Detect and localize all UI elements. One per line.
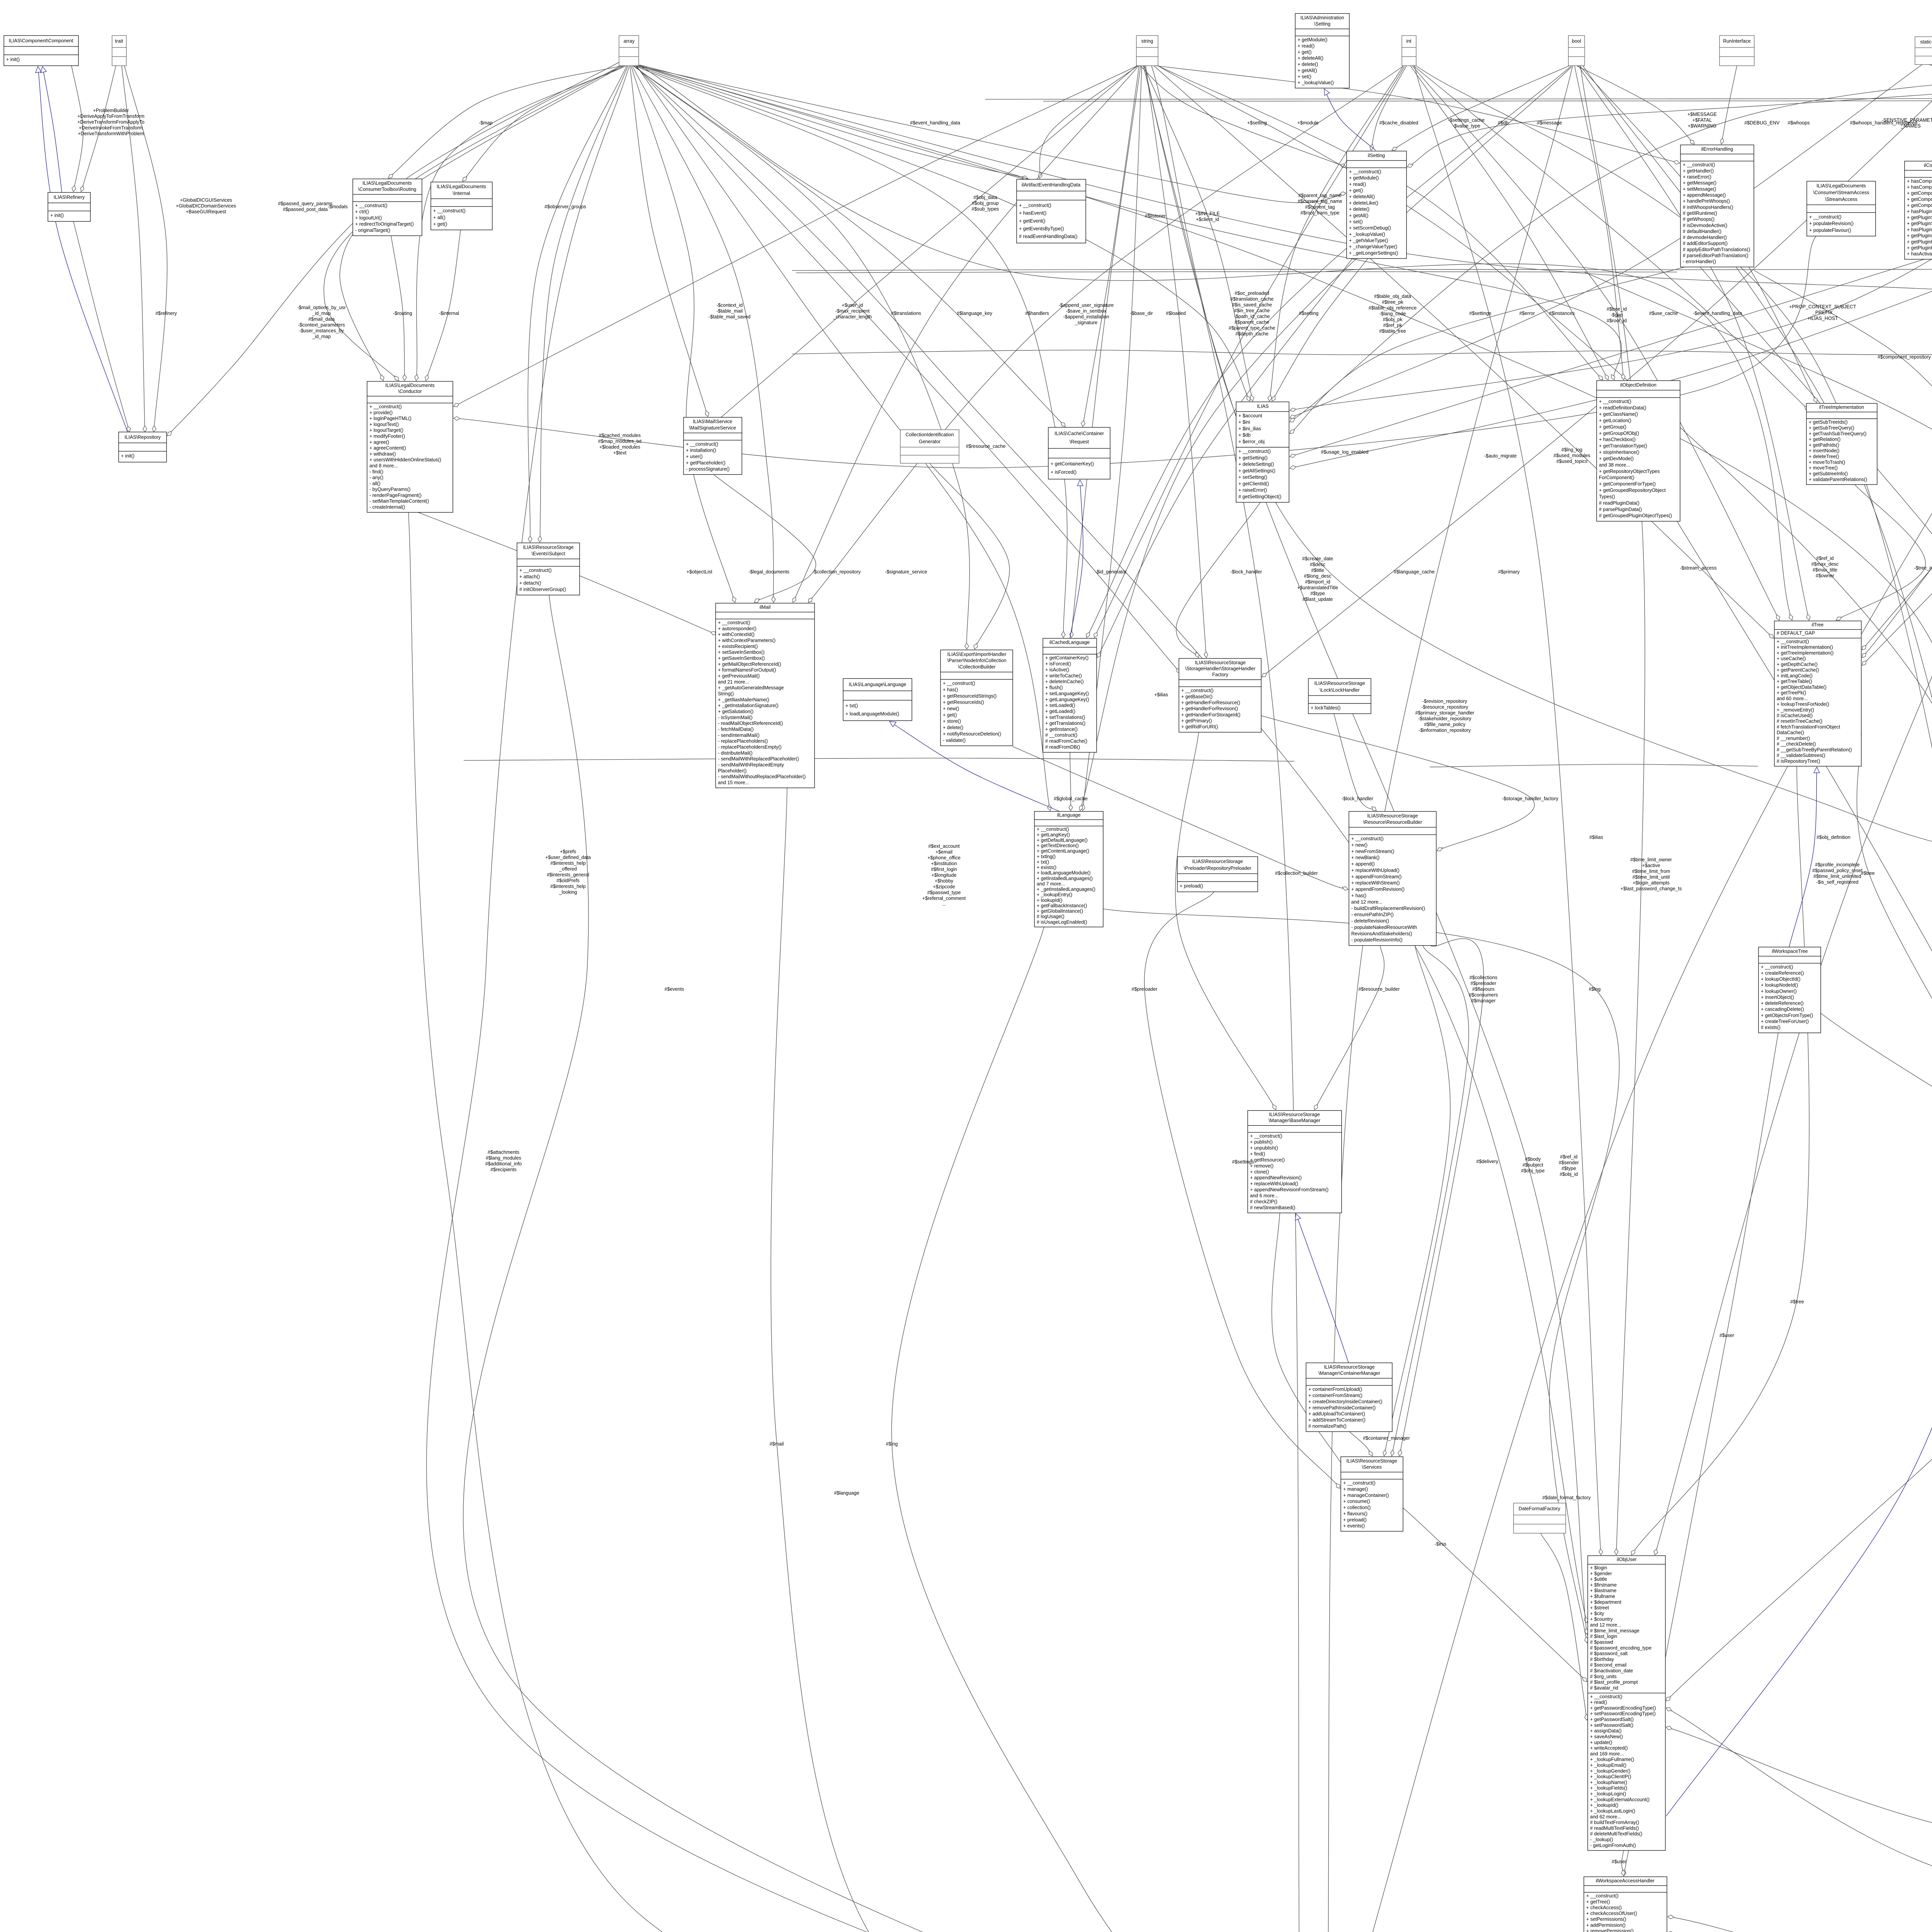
svg-text:#$additional_info: #$additional_info — [485, 1161, 522, 1167]
svg-text:- find(): - find() — [369, 469, 383, 474]
class ILIAS — [1236, 402, 1289, 502]
svg-text:# $inactivation_date: # $inactivation_date — [1590, 1668, 1633, 1673]
svg-text:+$login_attempts: +$login_attempts — [1633, 880, 1670, 886]
wire array to ilMailNotification — [427, 66, 1274, 1932]
svg-text:+ getTree(): + getTree() — [1586, 1899, 1610, 1905]
svg-text:+ _lookupEmail(): + _lookupEmail() — [1590, 1763, 1626, 1768]
wire string to MailSignatureService — [716, 66, 1137, 422]
svg-text:#$usage_log_enabled: #$usage_log_enabled — [1321, 449, 1368, 455]
svg-text:#$collection_builder: #$collection_builder — [1275, 871, 1318, 876]
svg-text:-$stream_access: -$stream_access — [1680, 565, 1716, 571]
svg-text:+ _lookupId(): + _lookupId() — [1590, 1803, 1618, 1808]
svg-text:#$preloader: #$preloader — [1132, 986, 1158, 992]
svg-text:#$sub_types: #$sub_types — [972, 206, 999, 212]
svg-text:+ isActive(): + isActive() — [1045, 667, 1069, 672]
svg-text:\Preloader\RepositoryPreloader: \Preloader\RepositoryPreloader — [1184, 866, 1251, 871]
wire bus1c — [1681, 269, 1932, 270]
label -$routing — [393, 311, 412, 316]
svg-text:+$client_id: +$client_id — [1196, 217, 1219, 222]
svg-text:#$listener: #$listener — [1145, 213, 1166, 219]
label -$collection_repository — [812, 569, 861, 575]
wire array to Subject — [538, 66, 628, 542]
svg-text:+ __construct(): + __construct() — [369, 404, 402, 410]
svg-text:#$parent_cache: #$parent_cache — [1235, 320, 1269, 325]
svg-text:-$path_id_cache: -$path_id_cache — [1234, 314, 1270, 319]
wire bus4 — [464, 758, 1294, 761]
svg-text:+ cascadingDelete(): + cascadingDelete() — [1761, 1007, 1804, 1012]
wire string to ILIAS — [1144, 66, 1254, 401]
wire trait to Repository 2 — [124, 66, 167, 432]
class StreamAccess — [1807, 181, 1876, 236]
svg-text:+ lookupTreesForNode(): + lookupTreesForNode() — [1777, 702, 1829, 707]
wire ContainerManager to Services — [1349, 1432, 1372, 1456]
svg-text:+$text: +$text — [613, 450, 627, 456]
class ilCachedLanguage — [1043, 638, 1097, 752]
svg-text:#$time_limit_from: #$time_limit_from — [1632, 869, 1670, 874]
svg-text:\CollectionBuilder: \CollectionBuilder — [958, 664, 995, 670]
svg-text:-$lock_handler: -$lock_handler — [1230, 569, 1262, 575]
svg-text:\Lock\LockHandler: \Lock\LockHandler — [1320, 687, 1360, 693]
svg-text:# $second_email: # $second_email — [1590, 1662, 1627, 1668]
svg-text:#$db: #$db — [1498, 120, 1509, 126]
svg-text:# readMultiTextFields(): # readMultiTextFields() — [1590, 1825, 1639, 1831]
svg-text:# DEFAULT_GAP: # DEFAULT_GAP — [1777, 630, 1815, 636]
svg-text:+ installation(): + installation() — [686, 448, 716, 453]
svg-text:+DeriveTransformFromApplyTo: +DeriveTransformFromApplyTo — [77, 119, 145, 125]
svg-text:+ attach(): + attach() — [519, 574, 540, 580]
svg-text:+ getGroupOfObj(): + getGroupOfObj() — [1599, 430, 1639, 436]
svg-text:#$ilias: #$ilias — [1589, 835, 1603, 840]
svg-text:+ agreeContent(): + agreeContent() — [369, 446, 406, 451]
svg-text:#$primary: #$primary — [1498, 569, 1520, 575]
svg-text:#$delivery: #$delivery — [1476, 1159, 1499, 1164]
wire Services to ilObjUser — [1403, 1508, 1587, 1682]
wire ilCachedLanguage to ilLanguage — [1069, 752, 1073, 811]
svg-text:#$language: #$language — [834, 1490, 859, 1496]
svg-text:\Services: \Services — [1362, 1464, 1381, 1470]
svg-text:+ insertNode(): + insertNode() — [1809, 448, 1840, 454]
svg-text:#$ref_id: #$ref_id — [1816, 556, 1833, 561]
label -$append_user_signature — [1059, 303, 1114, 325]
svg-text:+ __construct(): + __construct() — [1590, 1694, 1622, 1699]
label #$collections — [1469, 975, 1498, 1003]
svg-text:ILIAS\ResourceStorage: ILIAS\ResourceStorage — [1314, 680, 1365, 686]
svg-text:+ __construct(): + __construct() — [1238, 449, 1271, 454]
label #$ref_id — [1559, 1154, 1579, 1177]
svg-text:- all(): - all() — [369, 481, 380, 486]
svg-text:+ getTreeTable(): + getTreeTable() — [1777, 679, 1812, 684]
svg-text:#$passwd_policy_reset: #$passwd_policy_reset — [1812, 868, 1862, 873]
svg-text:+ _lookupFullname(): + _lookupFullname() — [1590, 1757, 1634, 1762]
svg-text:_id_map: _id_map — [312, 334, 331, 339]
svg-text:-$context_parameters: -$context_parameters — [298, 322, 345, 328]
svg-text:#$last_update: #$last_update — [1303, 597, 1333, 602]
svg-text:ILIAS\LegalDocuments: ILIAS\LegalDocuments — [362, 180, 412, 186]
wire ilRbacReview to ilWorkspaceAccessHandler — [1668, 546, 1932, 1932]
svg-text:and 62 more...: and 62 more... — [1590, 1814, 1621, 1820]
svg-text:+$prefs: +$prefs — [560, 849, 576, 854]
svg-text:ILIAS\Refinery: ILIAS\Refinery — [54, 195, 85, 200]
svg-text:+ handlePreWhoops(): + handlePreWhoops() — [1683, 199, 1730, 204]
wire MailSignatureService to ilMail — [714, 474, 816, 602]
svg-text:#$date_format_factory: #$date_format_factory — [1542, 1495, 1591, 1500]
svg-text:+ getSubtreeInfo(): + getSubtreeInfo() — [1809, 471, 1848, 476]
svg-text:+ getTreePk(): + getTreePk() — [1777, 690, 1806, 696]
svg-text:Factory: Factory — [1212, 672, 1228, 677]
svg-text:+ appendNewRevision(): + appendNewRevision() — [1250, 1175, 1302, 1180]
wire ilComponentRepository to ILIAS — [1290, 259, 1924, 457]
svg-text:+ __construct(): + __construct() — [355, 203, 388, 208]
label #$db — [1498, 120, 1509, 126]
svg-text:# $birthday: # $birthday — [1590, 1656, 1614, 1662]
svg-text:#$in_tree_cache: #$in_tree_cache — [1234, 308, 1270, 313]
svg-text:#$mail_data: #$mail_data — [308, 316, 335, 322]
svg-text:+ getParentCache(): + getParentCache() — [1777, 667, 1819, 673]
svg-text:+ lookupObjectId(): + lookupObjectId() — [1761, 976, 1800, 982]
wire ilObjUser to ilObject generalization — [1666, 1264, 1932, 1816]
svg-text:+ __construct(): + __construct() — [1761, 964, 1793, 970]
svg-text:+ flavours(): + flavours() — [1343, 1511, 1367, 1516]
svg-text:+ _lookupValue(): + _lookupValue() — [1349, 231, 1385, 237]
svg-text:ILIAS\Repository: ILIAS\Repository — [124, 434, 161, 440]
svg-text:+ agree(): + agree() — [369, 439, 389, 445]
class RepositoryPreloader — [1177, 857, 1258, 892]
svg-text:+ withContextId(): + withContextId() — [718, 632, 755, 637]
svg-text:+ replaceWithUpload(): + replaceWithUpload() — [1250, 1181, 1298, 1187]
svg-text:+ addStreamToContainer(): + addStreamToContainer() — [1308, 1417, 1366, 1423]
wire string to ilObjectProperties — [1151, 66, 1932, 861]
wire array to RS_SHF — [635, 66, 1180, 673]
svg-text:ILIAS\Component\Component: ILIAS\Component\Component — [9, 38, 73, 43]
svg-text:+ getSubTreeQuery(): + getSubTreeQuery() — [1809, 425, 1854, 431]
svg-text:+ _lookupLogin(): + _lookupLogin() — [1590, 1791, 1626, 1797]
svg-text:+ initTreeImplementation(): + initTreeImplementation() — [1777, 645, 1833, 650]
label #$preloader — [1132, 986, 1158, 992]
svg-text:#$current_tag_name: #$current_tag_name — [1298, 199, 1342, 204]
wire CollectionIdGen to CollectionBuilder — [930, 463, 1010, 649]
svg-text:+ consume(): + consume() — [1343, 1499, 1370, 1504]
svg-text:# $password_salt: # $password_salt — [1590, 1651, 1628, 1656]
svg-text:- errorHandler(): - errorHandler() — [1683, 259, 1716, 264]
label -$modals — [328, 204, 347, 209]
svg-text:+ _removeEntry(): + _removeEntry() — [1777, 707, 1814, 713]
svg-text:#$loaded: #$loaded — [1166, 311, 1185, 316]
svg-text:+ getHandlerForStorageId(): + getHandlerForStorageId() — [1181, 712, 1240, 718]
svg-text:ilTreeImplementation: ilTreeImplementation — [1819, 405, 1864, 410]
svg-text:+ _lookupExternalAccount(): + _lookupExternalAccount() — [1590, 1797, 1650, 1802]
wire ilDBInterface to ILIAS — [1290, 63, 1932, 422]
svg-text:+ getResource(): + getResource() — [1250, 1157, 1285, 1163]
svg-text:+ getTranslations(): + getTranslations() — [1045, 721, 1085, 726]
svg-text:+ getPrimary(): + getPrimary() — [1181, 718, 1212, 724]
class ilErrorHandling — [1680, 145, 1754, 267]
svg-text:+ withdraw(): + withdraw() — [369, 451, 396, 457]
svg-text:+ provide(): + provide() — [369, 410, 393, 415]
wire string to ilMail — [793, 66, 1139, 602]
label -$context_id — [709, 303, 750, 320]
svg-text:+ __construct(): + __construct() — [1250, 1133, 1282, 1139]
svg-text:+ getAll(): + getAll() — [1298, 68, 1317, 73]
svg-text:+$untranslatedTitle: +$untranslatedTitle — [1297, 585, 1338, 590]
svg-text:ILIAS\Language\Language: ILIAS\Language\Language — [849, 682, 906, 687]
svg-text:+ getPlaceholder(): + getPlaceholder() — [686, 460, 726, 466]
svg-text:#$oldPrefs: #$oldPrefs — [556, 878, 580, 883]
svg-text:# resetInTreeCache(): # resetInTreeCache() — [1777, 719, 1822, 724]
svg-text:+ $firstname: + $firstname — [1590, 1582, 1617, 1588]
svg-text:+ ctrl(): + ctrl() — [355, 209, 369, 214]
svg-text:-$value_type: -$value_type — [1452, 123, 1480, 129]
wire ResourceBuilder to BaseManager — [1314, 946, 1384, 1110]
svg-text:+$loaded_modules: +$loaded_modules — [599, 444, 640, 450]
wire bus1b — [796, 272, 1677, 273]
wire ilLanguage to Language generalization — [889, 721, 1060, 811]
svg-text:+ replaceWithStream(): + replaceWithStream() — [1351, 880, 1400, 886]
svg-text:+ newFromStream(): + newFromStream() — [1351, 849, 1394, 854]
svg-text:+ loadLanguageModule(): + loadLanguageModule() — [1037, 870, 1090, 876]
svg-text:#$translation_cache: #$translation_cache — [1230, 296, 1274, 302]
label #$resource_builder — [1358, 986, 1400, 992]
wire ilWorkspaceTree to ilTree generalization — [1789, 767, 1820, 947]
svg-text:+ read(): + read() — [1298, 43, 1315, 49]
svg-text:#$table_obj_data: #$table_obj_data — [1374, 294, 1411, 299]
wire const to ilObjUser — [1654, 65, 1932, 1555]
label #$translations — [891, 311, 921, 316]
svg-text:+ appendMessage(): + appendMessage() — [1683, 192, 1726, 198]
svg-text:+ checkAccess(): + checkAccess() — [1586, 1905, 1622, 1910]
svg-text:and 38 more...: and 38 more... — [1599, 462, 1630, 468]
wire string to ilObjectDefinition — [1158, 66, 1603, 380]
label #$language_key — [957, 311, 992, 316]
class Repository — [119, 432, 167, 462]
label +$user_id — [833, 303, 872, 320]
svg-text:ForComponent(): ForComponent() — [1599, 475, 1634, 480]
svg-text:+ $street: + $street — [1590, 1605, 1609, 1611]
svg-text:ILIAS\ResourceStorage: ILIAS\ResourceStorage — [1192, 859, 1243, 864]
svg-text:+ getHandlerForRevision(): + getHandlerForRevision() — [1181, 706, 1238, 711]
svg-text:#$lng: #$lng — [1589, 986, 1601, 992]
label #$language_cache — [1394, 569, 1435, 575]
svg-text:+ logoutUrl(): + logoutUrl() — [355, 215, 382, 221]
wire bus3b — [1043, 100, 1932, 101]
svg-text:+ getDefaultLanguage(): + getDefaultLanguage() — [1037, 838, 1088, 843]
svg-text:+ setLanguageKey(): + setLanguageKey() — [1045, 691, 1089, 696]
wire const to ilTree — [1862, 65, 1932, 650]
svg-text:+ logoutText(): + logoutText() — [369, 422, 399, 427]
svg-text:+ getLocation(): + getLocation() — [1599, 418, 1631, 423]
svg-text:#$mail: #$mail — [770, 1441, 784, 1447]
label +$module — [1297, 120, 1318, 126]
class Conductor — [367, 381, 453, 512]
svg-text:+ createReference(): + createReference() — [1761, 970, 1804, 976]
wire bus2 — [792, 350, 1932, 355]
wire bool to ilObjectDefinition — [1575, 66, 1625, 380]
svg-text:#$cached_modules: #$cached_modules — [599, 433, 641, 438]
wire ilErrorHandling to ILIAS — [1290, 267, 1685, 434]
label -$event_handling_data — [1693, 311, 1742, 316]
svg-text:+ getTreeImplementation(): + getTreeImplementation() — [1777, 650, 1833, 656]
svg-text:# $last_profile_prompt: # $last_profile_prompt — [1590, 1680, 1638, 1685]
svg-text:\StorageHandler\StorageHandler: \StorageHandler\StorageHandler — [1185, 666, 1255, 672]
svg-text:+ new(): + new() — [943, 706, 959, 711]
label #$settings — [1232, 1159, 1254, 1165]
svg-text:#$max_title: #$max_title — [1813, 567, 1837, 573]
label #$use_cache — [1649, 311, 1678, 316]
svg-text:_looking: _looking — [559, 889, 577, 895]
label -$irss — [1435, 1541, 1447, 1547]
svg-text:+ setLoaded(): + setLoaded() — [1045, 703, 1075, 708]
svg-text:+ get(): + get() — [1298, 49, 1311, 55]
wire ilSetting to ILIAS — [1272, 259, 1368, 401]
svg-text:ilComponentRepository: ilComponentRepository — [1924, 163, 1932, 168]
svg-text:+ deleteSetting(): + deleteSetting() — [1238, 462, 1274, 467]
wire Conductor to ilMailNotification — [408, 512, 1274, 1932]
svg-text:#$language_cache: #$language_cache — [1394, 569, 1435, 575]
svg-text:+ getRidForURI(): + getRidForURI() — [1181, 724, 1218, 730]
wire ilRbacReview to ilObjUser — [1666, 546, 1932, 1701]
svg-text:+ _getInstallationSignature(): + _getInstallationSignature() — [718, 703, 779, 708]
label -$auto_migrate — [1484, 453, 1517, 459]
svg-text:+ txt(): + txt() — [845, 703, 858, 709]
svg-text:+ checkAccessOfUser(): + checkAccessOfUser() — [1586, 1911, 1637, 1916]
svg-text:ILIAS\Export\ImportHandler: ILIAS\Export\ImportHandler — [947, 651, 1007, 657]
svg-text:+ILIAS_HOST: +ILIAS_HOST — [1807, 316, 1838, 321]
svg-text:+ delete(): + delete() — [1298, 62, 1318, 67]
svg-text:#$cache_disabled: #$cache_disabled — [1379, 120, 1418, 126]
svg-text:- ensurePathInZIP(): - ensurePathInZIP() — [1351, 912, 1394, 917]
svg-text:+ appendFromRevision(): + appendFromRevision() — [1351, 887, 1405, 892]
svg-text:+ init(): + init() — [6, 57, 20, 62]
svg-text:+ setPermissions(): + setPermissions() — [1586, 1917, 1626, 1922]
wire array to Internal — [463, 66, 624, 181]
svg-text:# checkZIP(): # checkZIP() — [1250, 1199, 1277, 1204]
wire bus to ilAppEventHandler 1 — [1754, 270, 1932, 426]
svg-text:#$obj_type: #$obj_type — [1521, 1168, 1544, 1173]
svg-text:Placeholder(): Placeholder() — [718, 768, 747, 774]
svg-text:#$profile_incomplete: #$profile_incomplete — [1815, 862, 1859, 867]
svg-text:+ $city: + $city — [1590, 1611, 1604, 1616]
svg-text:# $org_units: # $org_units — [1590, 1674, 1617, 1679]
svg-text:_id_map: _id_map — [312, 311, 331, 316]
svg-text:# __validateSubtrees(): # __validateSubtrees() — [1777, 753, 1825, 758]
svg-text:# parseEditorPathTranslation(): # parseEditorPathTranslation() — [1683, 253, 1748, 259]
svg-text:-$storage_handler_factory: -$storage_handler_factory — [1502, 796, 1559, 801]
svg-text:- replacePlaceholders(): - replacePlaceholders() — [718, 738, 768, 744]
svg-text:-$stakeholder_repository: -$stakeholder_repository — [1418, 716, 1471, 721]
svg-text:+PROP_CONTEXT_SUBJECT: +PROP_CONTEXT_SUBJECT — [1789, 304, 1856, 310]
svg-text:and 15 more...: and 15 more... — [718, 780, 749, 786]
class RS_SHF — [1179, 658, 1261, 732]
svg-text:#$type: #$type — [1561, 1166, 1576, 1171]
svg-text:#$used_topics: #$used_topics — [1556, 459, 1588, 464]
svg-text:+ flush(): + flush() — [1045, 685, 1063, 690]
wire array to Conductor 3 — [415, 66, 626, 381]
label -$storage_handler_factory — [1502, 796, 1559, 801]
label -$base_dir — [1130, 311, 1153, 316]
label +$ilias — [1154, 692, 1168, 697]
svg-text:#$tree_pk: #$tree_pk — [1382, 299, 1403, 305]
svg-text:#$depth_cache: #$depth_cache — [1235, 331, 1269, 337]
svg-text:-SENSTIVE_PARAMETER: -SENSTIVE_PARAMETER — [1882, 117, 1932, 123]
svg-text:#$long_desc: #$long_desc — [1304, 573, 1332, 579]
svg-text:+ getPreviousMail(): + getPreviousMail() — [718, 673, 760, 679]
svg-text:+ __construct(): + __construct() — [1349, 169, 1381, 174]
wire ilTree to ilObjUser — [1631, 766, 1809, 1555]
svg-text:#$manager: #$manager — [1471, 998, 1495, 1003]
class Component — [4, 36, 78, 66]
svg-text:#$time_limit_owner: #$time_limit_owner — [1630, 857, 1672, 862]
svg-text:+ saveAsNew(): + saveAsNew() — [1590, 1734, 1623, 1739]
svg-text:+ getFallbackInstance(): + getFallbackInstance() — [1037, 903, 1087, 908]
svg-text:#$collections: #$collections — [1469, 975, 1497, 980]
svg-text:-$map: -$map — [479, 120, 492, 126]
label -$id_generator — [1095, 569, 1126, 575]
svg-text:+ getPluginSlotById(): + getPluginSlotById() — [1907, 221, 1932, 226]
class array — [619, 36, 639, 66]
label #$date_format_factory — [1542, 1495, 1591, 1500]
label -$lock_handler — [1230, 569, 1262, 575]
svg-text:+ readDefinitionData(): + readDefinitionData() — [1599, 405, 1646, 411]
wire array to CacheRequest — [633, 66, 1065, 427]
svg-text:+ getResourceIdStrings(): + getResourceIdStrings() — [943, 693, 997, 699]
label #$settings — [1469, 311, 1492, 316]
svg-text:+ getLoaded(): + getLoaded() — [1045, 709, 1075, 714]
svg-text:# deleteMultiTextFields(): # deleteMultiTextFields() — [1590, 1831, 1642, 1837]
label #$tree_id — [1607, 306, 1627, 323]
wire array to ilMail 2 — [632, 66, 776, 602]
wire static to ILIAS — [1290, 65, 1922, 418]
class DateFormatFactory — [1514, 1503, 1566, 1533]
svg-text:- readMailObjectReferenceId(): - readMailObjectReferenceId() — [718, 721, 783, 726]
class CollectionBuilder — [940, 650, 1013, 746]
svg-text:+ getClientId(): + getClientId() — [1238, 481, 1269, 486]
wire ilWorkspaceTree to ForumSender — [1821, 1013, 1932, 1932]
svg-text:+ getInstance(): + getInstance() — [1045, 726, 1078, 732]
svg-text:+ getLanguageKey(): + getLanguageKey() — [1045, 697, 1089, 702]
svg-text:#$consumers: #$consumers — [1469, 992, 1498, 998]
class trait — [112, 36, 126, 66]
label #$ilias — [1589, 835, 1603, 840]
svg-text:-$information_repository: -$information_repository — [1419, 728, 1471, 733]
label #$observer_groups — [544, 204, 586, 209]
svg-text:# applyEditorPathTranslations(: # applyEditorPathTranslations() — [1683, 247, 1750, 252]
svg-text:ILIAS\ResourceStorage: ILIAS\ResourceStorage — [1195, 660, 1245, 665]
wire ilSetting to ilCachedLanguage — [1097, 259, 1352, 658]
svg-text:+ detach(): + detach() — [519, 580, 541, 586]
svg-text:# fetchTranslationFromObject: # fetchTranslationFromObject — [1777, 724, 1840, 730]
svg-text:+ events(): + events() — [1343, 1523, 1365, 1529]
svg-text:+ hasComponentId(): + hasComponentId() — [1907, 185, 1932, 190]
label #$create_date — [1297, 556, 1338, 602]
svg-text:#$container_manager: #$container_manager — [1363, 1435, 1410, 1441]
svg-text:+ getModule(): + getModule() — [1349, 175, 1379, 181]
svg-text:+ writeAccepted(): + writeAccepted() — [1590, 1745, 1628, 1751]
svg-text:# $password_encoding_type: # $password_encoding_type — [1590, 1645, 1651, 1651]
svg-text:ilCachedLanguage: ilCachedLanguage — [1049, 640, 1090, 645]
wire bool to ilCachedLanguage — [1086, 66, 1571, 638]
svg-text:# $avatar_rid: # $avatar_rid — [1590, 1685, 1618, 1691]
label #$lng — [886, 1441, 898, 1447]
svg-text:+$longitude: +$longitude — [932, 872, 957, 878]
svg-text:- sendMailWithoutReplacedPlace: - sendMailWithoutReplacedPlaceholder() — [718, 774, 806, 779]
svg-text:#$ref_id: #$ref_id — [1560, 1154, 1577, 1160]
wire array to Repository — [167, 62, 620, 436]
wire ilWorkspaceTree to ilWorkspaceAccessHandler — [1622, 1033, 1778, 1876]
svg-text:_offered: _offered — [559, 866, 577, 872]
svg-text:#$passed_query_params: #$passed_query_params — [278, 201, 332, 206]
svg-text:-$is_self_registered: -$is_self_registered — [1816, 879, 1858, 885]
wire ilMail to ilMailNotification — [771, 788, 1274, 1932]
svg-text:+ setPasswordEncodingType(): + setPasswordEncodingType() — [1590, 1711, 1656, 1716]
